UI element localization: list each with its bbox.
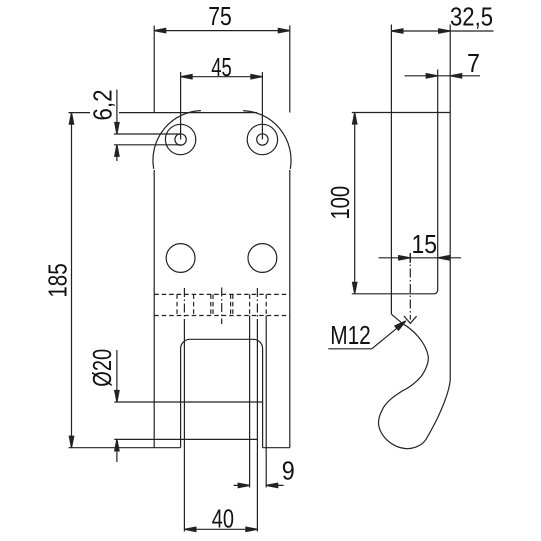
dim O20: extension lines [114,401,262,403]
O9 right hole edge extension lines down to 9-dim [249,316,251,488]
svg-text:40: 40 [212,504,234,534]
dim 75: extension lines [153,26,155,113]
top hole right: outer circle [247,124,277,154]
top-left corner arc [153,111,201,169]
dim O20: vertical + outside arrows [116,350,118,402]
plate back face + 32.5 extension (straight part) [449,25,451,381]
top-right corner arc [243,111,291,169]
top hole left: inner circle 6.2 [175,134,186,145]
dim 7: line + arrows [405,75,481,77]
hidden hole O9 right: walls [250,294,267,315]
chamfer to hook nose [391,314,402,324]
top hole left: outer circle [165,124,195,154]
hook inner curve (S) [379,324,429,423]
svg-text:M12: M12 [330,320,371,350]
notch (slot) in plate bottom [181,339,263,447]
svg-text:32,5: 32,5 [450,2,493,32]
plate outline (75x185 plate, rounded top corners, notch at bottom) [153,111,291,448]
dim 185: extension lines [69,112,258,114]
svg-text:6,2: 6,2 [88,90,118,121]
dim 15: line + arrows [379,257,462,259]
hook outer curve + bottom curl [379,380,451,449]
svg-text:15: 15 [411,229,437,259]
centerline M12 (dash-dot) [221,288,223,325]
dim 185: line + arrows [71,113,73,448]
drill centerline (dash-dot) [409,253,411,320]
svg-text:45: 45 [211,52,232,82]
centerline left hole + 40-dim extension [183,288,185,326]
dim 75: line + arrows [154,30,290,32]
hidden bar top edge (dashed) [154,293,290,295]
dim 45: extension lines [180,72,182,139]
hidden hole M12 center: thread walls [211,294,233,315]
dim 6,2: tangent lines [114,133,181,135]
dim 40: line + arrows [184,528,257,530]
hidden bar bottom edge (dashed) [154,315,290,317]
svg-text:7: 7 [467,48,480,78]
drill point vee [404,316,417,323]
dim 15: extension line [409,253,411,263]
svg-text:Ø20: Ø20 [87,349,117,387]
dim 32,5: line + arrows [391,30,493,32]
middle hole right [248,244,277,273]
svg-text:100: 100 [325,186,355,220]
bar top edge + corner + 100 extension [352,290,438,294]
hidden hole O9 left: walls [177,294,194,315]
top hole right: inner circle 6.2 [257,134,268,145]
svg-text:75: 75 [208,1,232,31]
svg-text:185: 185 [43,263,73,297]
middle hole left [166,244,195,273]
leader M12 [328,322,404,349]
centerline right hole + 40-dim extension [256,288,258,326]
dim 45: line + arrows [181,76,263,78]
plate front face + 7 extension [437,70,439,291]
dim 100: line + arrows [354,113,356,294]
dim 6,2: leader vertical + arrows [116,90,118,134]
svg-text:9: 9 [282,456,295,486]
plate top edge + 100 extension [352,112,450,114]
dim 9: outside arrows [234,484,250,486]
bar front face + 32.5 extension [390,25,392,315]
